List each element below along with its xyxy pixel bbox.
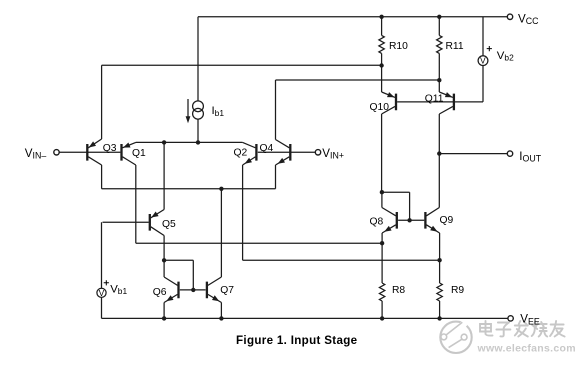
svg-text:V: V bbox=[480, 57, 486, 66]
svg-text:R9: R9 bbox=[451, 285, 464, 296]
svg-text:Q1: Q1 bbox=[132, 148, 146, 159]
svg-text:Ib1: Ib1 bbox=[212, 105, 225, 118]
svg-text:R8: R8 bbox=[392, 285, 405, 296]
svg-text:Q6: Q6 bbox=[153, 287, 167, 298]
svg-text:R10: R10 bbox=[389, 41, 408, 52]
svg-text:Vb2: Vb2 bbox=[497, 50, 514, 63]
svg-text:Q8: Q8 bbox=[370, 216, 384, 227]
svg-text:Q4: Q4 bbox=[260, 143, 274, 154]
svg-text:Q9: Q9 bbox=[440, 215, 454, 226]
svg-text:Q2: Q2 bbox=[234, 148, 248, 159]
svg-text:Q7: Q7 bbox=[220, 285, 234, 296]
svg-text:Q11: Q11 bbox=[425, 94, 444, 105]
svg-text:Q3: Q3 bbox=[103, 143, 117, 154]
svg-text:R11: R11 bbox=[446, 41, 464, 52]
svg-text:V: V bbox=[99, 289, 105, 298]
svg-text:Vb1: Vb1 bbox=[110, 283, 127, 296]
svg-text:Q5: Q5 bbox=[162, 219, 176, 230]
svg-text:Q10: Q10 bbox=[370, 102, 390, 113]
svg-text:Figure 1. Input Stage: Figure 1. Input Stage bbox=[236, 334, 358, 347]
svg-text:www.elecfans.com: www.elecfans.com bbox=[477, 343, 576, 355]
